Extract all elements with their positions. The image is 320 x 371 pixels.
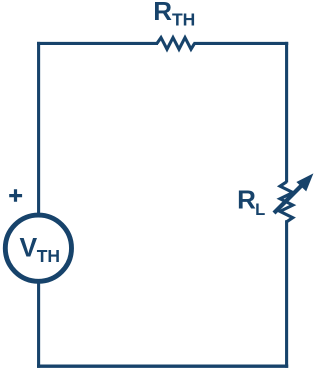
voltage source V_TH (circle) [5,215,71,281]
wire: left side, upper segment [37,42,40,214]
svg-text:RL: RL [237,185,265,219]
wire: bottom side [37,365,288,368]
plus sign (source polarity) [9,189,22,202]
resistor R_TH (zigzag) [157,38,195,50]
variable-resistor arrowhead [296,173,313,191]
resistor R_L zigzag (vertical) [280,182,293,222]
variable-resistor arrow shaft [274,183,305,214]
wire: top side, right segment [194,42,289,45]
wire: left side, lower segment [37,282,40,368]
svg-text:RTH: RTH [153,0,195,29]
wire: top side, left segment [37,42,158,45]
wire: right side, upper segment [285,42,288,183]
wire: right side, lower segment [285,220,288,367]
